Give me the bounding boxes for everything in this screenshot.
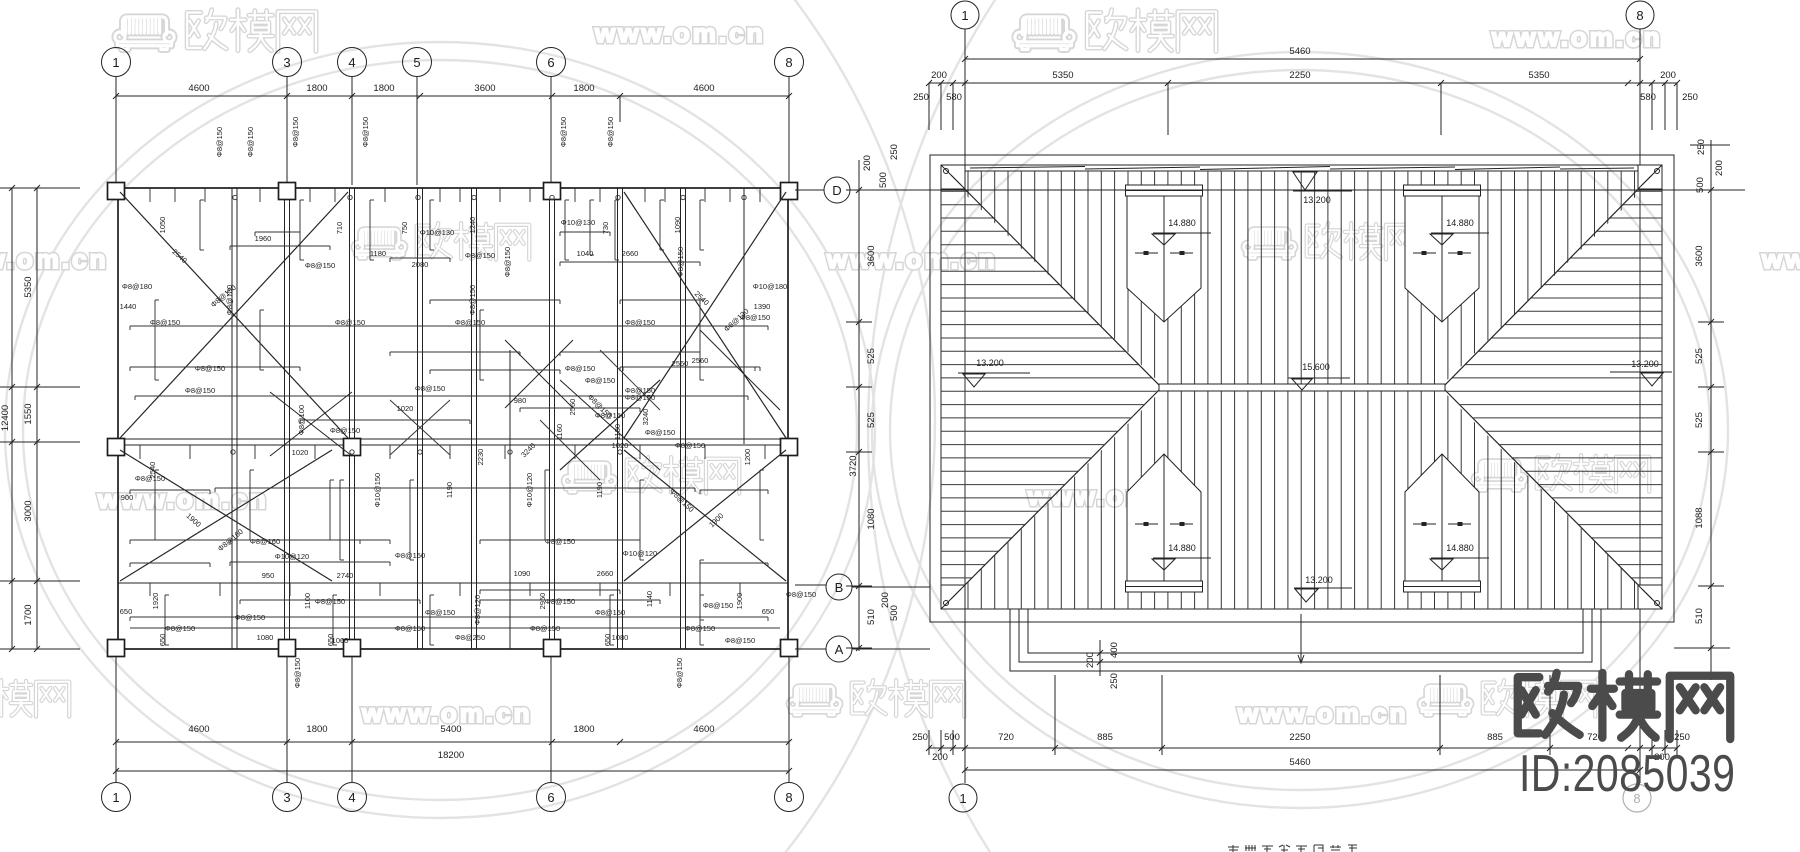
roof vertical hatch north slope <box>968 171 1648 390</box>
svg-text:2560: 2560 <box>568 399 577 416</box>
svg-text:1800: 1800 <box>573 724 594 735</box>
svg-text:1020: 1020 <box>612 441 629 450</box>
svg-text:720: 720 <box>998 732 1014 743</box>
svg-text:200: 200 <box>1085 652 1096 668</box>
roof dormer top-left <box>1126 185 1203 196</box>
svg-text:250: 250 <box>1109 673 1120 689</box>
svg-text:5460: 5460 <box>1289 757 1310 768</box>
svg-text:200: 200 <box>932 752 948 763</box>
svg-text:1090: 1090 <box>673 217 682 234</box>
svg-text:500: 500 <box>889 605 900 621</box>
svg-text:1800: 1800 <box>373 83 394 94</box>
svg-text:Φ8@150: Φ8@150 <box>675 658 684 688</box>
svg-text:Φ10@150: Φ10@150 <box>373 473 382 507</box>
left plan axis circles top <box>102 48 131 77</box>
svg-text:2230: 2230 <box>476 449 485 466</box>
svg-text:ID:2085039: ID:2085039 <box>1519 744 1735 802</box>
svg-text:4600: 4600 <box>693 83 714 94</box>
svg-text:2950: 2950 <box>538 593 547 610</box>
svg-text:Φ8@150: Φ8@150 <box>165 624 195 633</box>
svg-text:www.om.cn: www.om.cn <box>826 244 998 274</box>
svg-text:Φ8@150: Φ8@150 <box>330 426 360 435</box>
svg-text:525: 525 <box>1694 348 1705 364</box>
svg-text:Φ10@120: Φ10@120 <box>623 549 657 558</box>
roof eave rectangle <box>941 165 1662 609</box>
svg-text:Φ8@150: Φ8@150 <box>585 376 615 385</box>
roof bottom dimension lines <box>929 747 1677 749</box>
left plan interior horizontal beams <box>118 438 788 440</box>
svg-text:580: 580 <box>1640 92 1656 103</box>
site id text <box>1519 744 1735 802</box>
svg-text:4: 4 <box>348 55 355 70</box>
svg-text:250: 250 <box>1682 92 1698 103</box>
svg-text:1020: 1020 <box>292 448 309 457</box>
svg-text:Φ8@150: Φ8@150 <box>335 318 365 327</box>
svg-text:Φ8@150: Φ8@150 <box>465 251 495 260</box>
svg-text:Φ8@150: Φ8@150 <box>455 318 485 327</box>
svg-text:Φ8@150: Φ8@150 <box>395 624 425 633</box>
axis circle B <box>826 574 852 600</box>
svg-text:www.om.cn: www.om.cn <box>1491 22 1663 52</box>
svg-text:710: 710 <box>335 222 344 235</box>
axis circle D <box>824 177 850 203</box>
svg-text:4600: 4600 <box>693 724 714 735</box>
svg-text:1050: 1050 <box>158 217 167 234</box>
svg-text:Φ10@130: Φ10@130 <box>420 228 454 237</box>
svg-text:Φ8@150: Φ8@150 <box>195 364 225 373</box>
right dimension column <box>1710 140 1712 680</box>
svg-text:2740: 2740 <box>337 571 354 580</box>
site logo big <box>1518 673 1730 739</box>
svg-text:Φ8@150: Φ8@150 <box>503 247 512 277</box>
svg-text:Φ8@150: Φ8@150 <box>361 117 370 147</box>
svg-text:www.om.cn: www.om.cn <box>1761 244 1800 274</box>
svg-text:Φ8@150: Φ8@150 <box>530 624 560 633</box>
svg-text:1900: 1900 <box>735 593 744 610</box>
svg-text:250: 250 <box>913 92 929 103</box>
left plan columns <box>108 183 125 200</box>
svg-text:Φ8@150: Φ8@150 <box>305 261 335 270</box>
svg-text:Φ8@150: Φ8@150 <box>150 318 180 327</box>
svg-text:6: 6 <box>547 790 554 805</box>
svg-text:400: 400 <box>1109 642 1120 658</box>
svg-text:2560: 2560 <box>692 356 709 365</box>
svg-text:Φ8@250: Φ8@250 <box>455 633 485 642</box>
svg-text:1440: 1440 <box>120 302 137 311</box>
canopy outline <box>1028 609 1583 653</box>
svg-text:580: 580 <box>946 92 962 103</box>
svg-text:Φ8@150: Φ8@150 <box>315 597 345 606</box>
roof top dimension lines <box>965 58 1640 60</box>
svg-text:Φ8@150: Φ8@150 <box>291 117 300 147</box>
svg-text:250: 250 <box>1696 139 1707 155</box>
svg-text:Φ10@120: Φ10@120 <box>275 552 309 561</box>
svg-text:3600: 3600 <box>866 245 877 266</box>
roof dormer bottom-left <box>1127 454 1201 581</box>
left plan rebar stubs <box>149 188 151 202</box>
middle dimension column <box>858 160 860 651</box>
svg-text:5350: 5350 <box>1528 70 1549 81</box>
svg-text:www.om.cn: www.om.cn <box>594 18 766 48</box>
svg-text:13.200: 13.200 <box>1305 575 1333 585</box>
svg-text:1190: 1190 <box>445 482 454 498</box>
svg-text:B: B <box>835 580 844 595</box>
svg-text:Φ8@150: Φ8@150 <box>685 624 715 633</box>
left plan center diagonals <box>270 392 352 456</box>
svg-text:3240: 3240 <box>519 441 537 459</box>
svg-text:200: 200 <box>1714 160 1725 176</box>
svg-text:3: 3 <box>283 790 290 805</box>
svg-text:1180: 1180 <box>370 249 386 258</box>
svg-text:2660: 2660 <box>597 569 614 578</box>
svg-text:3240: 3240 <box>641 409 650 426</box>
svg-text:1700: 1700 <box>23 604 34 625</box>
svg-text:5400: 5400 <box>440 724 461 735</box>
svg-text:3720: 3720 <box>848 455 859 476</box>
svg-text:525: 525 <box>866 412 877 428</box>
roof dormer top-right <box>1404 185 1481 196</box>
svg-text:900: 900 <box>121 493 134 502</box>
svg-text:14.880: 14.880 <box>1446 218 1474 228</box>
svg-text:Φ8@150: Φ8@150 <box>293 658 302 688</box>
roof vertical hatch south slope <box>968 388 1648 609</box>
svg-text:1550: 1550 <box>23 403 34 424</box>
svg-text:12400: 12400 <box>0 405 11 431</box>
svg-text:13.200: 13.200 <box>1631 359 1659 369</box>
svg-text:3600: 3600 <box>1694 245 1705 266</box>
svg-text:Φ8@150: Φ8@150 <box>559 117 568 147</box>
svg-text:Φ8@100: Φ8@100 <box>297 405 306 435</box>
svg-text:1180: 1180 <box>613 424 622 440</box>
svg-text:1390: 1390 <box>754 302 771 311</box>
svg-text:1: 1 <box>959 791 966 806</box>
svg-text:2080: 2080 <box>412 260 429 269</box>
svg-text:1160: 1160 <box>555 424 564 440</box>
left plan bottom dimension lines <box>116 741 789 743</box>
roof ridge <box>1159 384 1445 391</box>
svg-text:Φ8@150: Φ8@150 <box>235 613 265 622</box>
svg-text:4600: 4600 <box>188 83 209 94</box>
svg-text:Φ8@150: Φ8@150 <box>545 597 575 606</box>
svg-text:650: 650 <box>326 634 335 647</box>
svg-text:8: 8 <box>785 790 792 805</box>
svg-text:5350: 5350 <box>1052 70 1073 81</box>
svg-text:Φ8@150: Φ8@150 <box>625 318 655 327</box>
svg-text:13.200: 13.200 <box>1303 195 1331 205</box>
left plan left dimension chain <box>11 188 13 649</box>
svg-text:14.880: 14.880 <box>1446 543 1474 553</box>
left plan corner brace diagonals <box>120 192 348 438</box>
svg-text:1088: 1088 <box>1694 507 1705 528</box>
axis circle A <box>826 636 852 662</box>
roof dormer bottom-right <box>1405 454 1479 581</box>
svg-text:1080: 1080 <box>866 508 877 529</box>
svg-text:Φ8@180: Φ8@180 <box>122 282 152 291</box>
svg-text:1: 1 <box>961 8 968 23</box>
svg-text:885: 885 <box>1487 732 1503 743</box>
svg-text:Φ8@150: Φ8@150 <box>676 247 685 277</box>
left plan axis circles bottom <box>102 783 131 812</box>
svg-text:Φ8@120: Φ8@120 <box>473 595 482 625</box>
svg-text:1190: 1190 <box>595 482 604 498</box>
svg-text:1240: 1240 <box>468 217 477 234</box>
svg-text:650: 650 <box>120 607 133 616</box>
svg-text:Φ8@160: Φ8@160 <box>250 537 280 546</box>
svg-text:Φ8@150: Φ8@150 <box>215 127 224 157</box>
svg-text:1800: 1800 <box>306 83 327 94</box>
svg-text:18200: 18200 <box>438 750 464 761</box>
svg-text:Φ8@150: Φ8@150 <box>415 384 445 393</box>
svg-text:15.600: 15.600 <box>1302 362 1330 372</box>
svg-text:2560: 2560 <box>672 359 689 368</box>
roof outer rectangle <box>930 155 1674 622</box>
svg-text:1: 1 <box>112 790 119 805</box>
svg-text:Φ8@150: Φ8@150 <box>786 590 816 599</box>
left plan interior vertical beams <box>231 188 233 649</box>
svg-text:Φ8@150: Φ8@150 <box>185 386 215 395</box>
svg-text:1080: 1080 <box>257 633 274 642</box>
svg-text:4: 4 <box>348 790 355 805</box>
svg-text:1920: 1920 <box>151 593 160 610</box>
svg-text:3600: 3600 <box>474 83 495 94</box>
svg-text:500: 500 <box>878 172 889 188</box>
svg-text:Φ8@150: Φ8@150 <box>565 364 595 373</box>
roof eave top double line <box>941 170 1662 172</box>
roof axis D line <box>851 189 1745 191</box>
svg-text:Φ8@150: Φ8@150 <box>606 117 615 147</box>
svg-text:950: 950 <box>262 571 275 580</box>
left plan top dimension line <box>116 95 789 97</box>
svg-text:Φ8@150: Φ8@150 <box>395 551 425 560</box>
roof horizontal hatch west slope <box>941 178 1170 605</box>
svg-text:200: 200 <box>931 70 947 81</box>
svg-text:Φ8@150: Φ8@150 <box>246 127 255 157</box>
left plan extra rebar lines <box>130 366 300 368</box>
svg-text:525: 525 <box>866 348 877 364</box>
svg-text:2540: 2540 <box>148 462 157 479</box>
svg-text:D: D <box>832 183 841 198</box>
svg-text:6: 6 <box>547 55 554 70</box>
svg-text:www.om.cn: www.om.cn <box>0 244 109 274</box>
svg-text:250: 250 <box>912 732 928 743</box>
svg-text:5460: 5460 <box>1289 46 1310 57</box>
svg-text:2250: 2250 <box>1289 70 1310 81</box>
svg-text:250: 250 <box>1674 732 1690 743</box>
svg-text:3000: 3000 <box>23 500 34 521</box>
svg-text:525: 525 <box>1694 412 1705 428</box>
svg-text:1140: 1140 <box>645 591 654 607</box>
svg-text:Φ10@180: Φ10@180 <box>753 282 787 291</box>
left plan rebar lines <box>130 325 768 327</box>
svg-text:1960: 1960 <box>255 234 272 243</box>
roof horizontal hatch east slope <box>1435 178 1662 605</box>
svg-text:2540: 2540 <box>693 289 711 307</box>
roof hip diagonals <box>941 165 1161 387</box>
roof axis circles bottom <box>964 622 966 783</box>
svg-text:200: 200 <box>1660 70 1676 81</box>
svg-text:Φ8@150: Φ8@150 <box>595 608 625 617</box>
bottom caption partial <box>1228 845 1357 852</box>
roof level labels <box>1293 172 1317 190</box>
svg-text:Φ8@150: Φ8@150 <box>468 285 477 315</box>
svg-text:Φ10@120: Φ10@120 <box>525 473 534 507</box>
svg-text:Φ8@150: Φ8@150 <box>425 608 455 617</box>
svg-text:650: 650 <box>603 634 612 647</box>
svg-text:980: 980 <box>514 396 527 405</box>
svg-text:Φ8@150: Φ8@150 <box>725 636 755 645</box>
svg-text:1800: 1800 <box>573 83 594 94</box>
svg-text:1800: 1800 <box>306 724 327 735</box>
svg-text:4600: 4600 <box>188 724 209 735</box>
svg-text:1090: 1090 <box>514 569 531 578</box>
svg-text:14.880: 14.880 <box>1168 543 1196 553</box>
svg-text:3: 3 <box>283 55 290 70</box>
svg-text:885: 885 <box>1097 732 1113 743</box>
svg-text:Φ10@130: Φ10@130 <box>561 218 595 227</box>
svg-text:650: 650 <box>158 634 167 647</box>
svg-text:1200: 1200 <box>743 449 752 466</box>
roof axis circles top <box>951 1 979 29</box>
left plan hook circles <box>233 195 237 199</box>
svg-text:13.200: 13.200 <box>976 358 1004 368</box>
svg-text:750: 750 <box>400 222 409 235</box>
svg-text:Φ8@150: Φ8@150 <box>545 537 575 546</box>
svg-text:1020: 1020 <box>397 404 414 413</box>
svg-text:Φ8@150: Φ8@150 <box>675 441 705 450</box>
svg-text:A: A <box>835 642 844 657</box>
svg-text:250: 250 <box>889 144 900 160</box>
svg-text:510: 510 <box>866 609 877 625</box>
svg-text:Φ8@150: Φ8@150 <box>625 386 655 395</box>
svg-text:200: 200 <box>862 155 873 171</box>
svg-text:2660: 2660 <box>622 249 639 258</box>
svg-text:Φ8@150: Φ8@150 <box>645 428 675 437</box>
svg-text:1100: 1100 <box>303 593 312 609</box>
svg-text:Φ8@150: Φ8@150 <box>703 601 733 610</box>
svg-text:1080: 1080 <box>612 633 629 642</box>
left plan outer border <box>118 188 788 649</box>
svg-text:2540: 2540 <box>170 247 188 265</box>
svg-text:650: 650 <box>762 607 775 616</box>
svg-text:1040: 1040 <box>577 249 594 258</box>
svg-text:2250: 2250 <box>1289 732 1310 743</box>
svg-text:1900: 1900 <box>707 511 725 529</box>
svg-text:5350: 5350 <box>23 276 34 297</box>
svg-text:1: 1 <box>112 55 119 70</box>
svg-text:8: 8 <box>1636 8 1643 23</box>
roof corner gutter boxes <box>941 165 965 189</box>
svg-text:14.880: 14.880 <box>1168 218 1196 228</box>
svg-text:5: 5 <box>413 55 420 70</box>
svg-text:500: 500 <box>1695 177 1706 193</box>
svg-text:510: 510 <box>1694 608 1705 624</box>
svg-text:www.om.cn: www.om.cn <box>1237 698 1409 728</box>
svg-text:8: 8 <box>785 55 792 70</box>
left plan extra center diagonals <box>390 400 450 455</box>
svg-text:730: 730 <box>601 222 610 235</box>
svg-text:500: 500 <box>944 732 960 743</box>
